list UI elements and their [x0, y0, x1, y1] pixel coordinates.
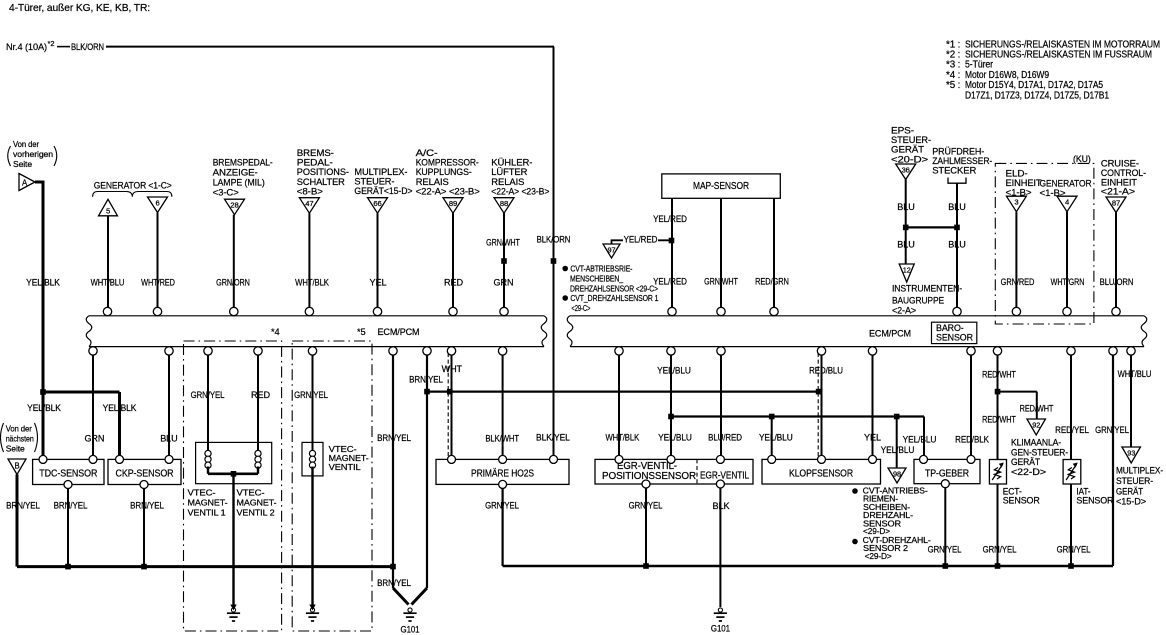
svg-text:YEL/BLU: YEL/BLU [658, 433, 692, 443]
svg-text:RED: RED [444, 278, 463, 288]
svg-text:GRN/YEL: GRN/YEL [485, 501, 519, 511]
svg-text:TDC-SENSOR: TDC-SENSOR [39, 468, 97, 479]
svg-text:Seite: Seite [6, 444, 25, 454]
svg-text:<29-D>: <29-D> [865, 552, 892, 561]
svg-text:GRN: GRN [494, 278, 514, 288]
svg-text:WHT/BLU: WHT/BLU [1118, 369, 1152, 379]
svg-text:ECM/PCM: ECM/PCM [378, 326, 420, 337]
svg-text:GRN/YEL: GRN/YEL [983, 545, 1017, 555]
svg-text:GENERATOR <1-C>: GENERATOR <1-C> [94, 181, 172, 192]
svg-text:VENTIL 1: VENTIL 1 [188, 508, 226, 518]
svg-text:<29-C>: <29-C> [571, 304, 590, 313]
svg-text:WHT/BLU: WHT/BLU [91, 278, 125, 288]
svg-text:B: B [14, 462, 19, 471]
svg-text:RED/WHT: RED/WHT [1020, 404, 1054, 414]
svg-text:G101: G101 [401, 624, 420, 634]
svg-text:GERÄT: GERÄT [1116, 486, 1144, 496]
svg-text:SICHERUNGS-/RELAISKASTEN IM FU: SICHERUNGS-/RELAISKASTEN IM FUSSRAUM [965, 50, 1152, 61]
svg-text:BRN/YEL: BRN/YEL [377, 433, 411, 443]
svg-text:D17Z1, D17Z3, D17Z4, D17Z5, D1: D17Z1, D17Z3, D17Z4, D17Z5, D17B1 [965, 90, 1109, 101]
svg-text:28: 28 [230, 201, 238, 210]
svg-text:CVT-ABTRIEBSRIE-: CVT-ABTRIEBSRIE- [570, 265, 632, 274]
svg-text:BLK/ORN: BLK/ORN [71, 42, 104, 52]
svg-text:<3-C>: <3-C> [213, 188, 240, 199]
svg-text:BLK: BLK [713, 501, 730, 511]
svg-text:SENSOR: SENSOR [1003, 495, 1040, 505]
svg-text:VTEC-: VTEC- [188, 488, 216, 498]
svg-text:RED/GRN: RED/GRN [755, 277, 789, 287]
svg-text:BRN/YEL: BRN/YEL [409, 375, 443, 385]
svg-text:Von der: Von der [6, 424, 32, 434]
svg-text:GRN/YEL: GRN/YEL [191, 390, 225, 400]
svg-text:<29-D>: <29-D> [863, 527, 890, 536]
svg-text:BLU: BLU [160, 434, 177, 444]
svg-text:MAGNET-: MAGNET- [188, 498, 228, 508]
svg-text:YEL/BLK: YEL/BLK [26, 278, 60, 288]
svg-text:WHT/GRN: WHT/GRN [1051, 277, 1085, 287]
svg-text:88: 88 [500, 199, 508, 208]
svg-text:<21-A>: <21-A> [1101, 187, 1136, 198]
svg-text:YEL/BLU: YEL/BLU [881, 445, 915, 455]
svg-text:BLU/ORN: BLU/ORN [1100, 277, 1134, 287]
svg-text:BAUGRUPPE: BAUGRUPPE [892, 295, 944, 305]
svg-text:*5 :: *5 : [946, 80, 960, 91]
svg-text:TP-GEBER: TP-GEBER [925, 468, 969, 479]
svg-text:BRN/YEL: BRN/YEL [377, 578, 411, 588]
svg-text:EGR-VENTIL: EGR-VENTIL [700, 471, 749, 482]
svg-text:SENSOR: SENSOR [936, 333, 973, 343]
svg-text:YEL: YEL [864, 433, 881, 443]
svg-text:MAGNET-: MAGNET- [237, 498, 277, 508]
svg-text:GRN/YEL: GRN/YEL [629, 501, 663, 511]
svg-text:G101: G101 [711, 624, 730, 634]
svg-text:66: 66 [373, 199, 381, 208]
svg-text:<22-A> <23-B>: <22-A> <23-B> [491, 186, 549, 197]
svg-text:BLU: BLU [897, 202, 914, 212]
svg-text:KLIMAANLA-: KLIMAANLA- [1011, 438, 1061, 448]
svg-text:YEL/RED: YEL/RED [653, 277, 687, 287]
svg-text:98: 98 [893, 469, 901, 478]
svg-text:GRN/ORN: GRN/ORN [216, 278, 250, 288]
svg-text:YEL/BLU: YEL/BLU [903, 435, 937, 445]
svg-text:BLK/ORN: BLK/ORN [537, 235, 571, 245]
svg-text:STECKER: STECKER [932, 166, 976, 177]
svg-text:RED/YEL: RED/YEL [1055, 425, 1089, 435]
svg-text:BLU: BLU [948, 240, 965, 250]
svg-text:GEN-STEUER-: GEN-STEUER- [1011, 447, 1068, 457]
svg-text:GRN/RED: GRN/RED [1001, 277, 1035, 287]
svg-text:WHT: WHT [442, 364, 463, 374]
svg-text:KLOPFSENSOR: KLOPFSENSOR [789, 468, 853, 479]
svg-text:GRN/WHT: GRN/WHT [704, 277, 738, 287]
svg-text:YEL/BLK: YEL/BLK [103, 403, 137, 413]
svg-text:<8-B>: <8-B> [297, 186, 324, 197]
svg-text:SENSOR: SENSOR [1076, 495, 1113, 505]
svg-text:RED/BLK: RED/BLK [955, 435, 989, 445]
svg-text:STEUER-: STEUER- [1116, 476, 1153, 486]
svg-text:*4: *4 [271, 327, 280, 337]
svg-text:vorherigen: vorherigen [13, 149, 53, 159]
svg-text:YEL: YEL [370, 278, 387, 288]
svg-text:GRN/WHT: GRN/WHT [486, 238, 520, 248]
svg-text:CVT_DREHZAHLSENSOR 1: CVT_DREHZAHLSENSOR 1 [570, 294, 658, 303]
svg-text:<2-A>: <2-A> [892, 306, 916, 316]
svg-text:<22-D>: <22-D> [1011, 467, 1046, 477]
svg-text:<22-A> <23-B>: <22-A> <23-B> [416, 186, 481, 197]
svg-text:MENSCHEIBEN_: MENSCHEIBEN_ [570, 275, 623, 284]
svg-text:MULTIPLEX-: MULTIPLEX- [1116, 466, 1163, 476]
svg-text:BRN/YEL: BRN/YEL [54, 501, 88, 511]
svg-text:(KU): (KU) [1073, 154, 1091, 164]
svg-text:Nr.4 (10A): Nr.4 (10A) [6, 42, 47, 52]
svg-text:Seite: Seite [13, 159, 32, 169]
svg-text:BLU/RED: BLU/RED [708, 433, 742, 443]
svg-text:97: 97 [608, 245, 616, 254]
svg-text:Von der: Von der [13, 139, 39, 149]
svg-text:YEL/BLU: YEL/BLU [759, 433, 793, 443]
svg-text:VENTIL: VENTIL [329, 462, 361, 472]
svg-text:*5: *5 [357, 327, 366, 337]
svg-text:87: 87 [1112, 198, 1120, 207]
svg-text:3: 3 [1014, 198, 1018, 207]
svg-text:YEL/RED: YEL/RED [653, 214, 687, 224]
svg-text:GRN/YEL: GRN/YEL [1095, 425, 1129, 435]
svg-text:4-Türer, außer KG, KE, KB, TR:: 4-Türer, außer KG, KE, KB, TR: [9, 2, 150, 14]
svg-text:47: 47 [305, 199, 313, 208]
svg-text:VTEC-: VTEC- [237, 488, 265, 498]
svg-text:RED/BLU: RED/BLU [809, 365, 843, 375]
svg-text:BLK/YEL: BLK/YEL [536, 432, 570, 442]
svg-text:BRN/YEL: BRN/YEL [6, 501, 40, 511]
svg-text:BLK/WHT: BLK/WHT [485, 433, 519, 443]
svg-text:GERÄT<15-D>: GERÄT<15-D> [354, 186, 412, 197]
svg-text:BLU: BLU [897, 240, 914, 250]
svg-text:WHT/RED: WHT/RED [141, 278, 175, 288]
svg-text:WHT/BLK: WHT/BLK [295, 278, 329, 288]
svg-text:A: A [22, 178, 28, 187]
svg-text:<15-D>: <15-D> [1116, 497, 1146, 507]
svg-text:nächsten: nächsten [6, 434, 34, 444]
svg-text:POSITIONSSENSOR: POSITIONSSENSOR [602, 471, 696, 482]
svg-text:BLU: BLU [948, 202, 965, 212]
svg-text:DREHZAHLSENSOR <29-C>: DREHZAHLSENSOR <29-C> [570, 285, 658, 294]
svg-text:GRN: GRN [84, 434, 104, 444]
svg-text:RED/WHT: RED/WHT [982, 370, 1016, 380]
svg-text:92: 92 [1032, 420, 1040, 429]
svg-text:YEL/BLK: YEL/BLK [27, 403, 61, 413]
svg-text:VENTIL 2: VENTIL 2 [237, 508, 275, 518]
svg-text:CKP-SENSOR: CKP-SENSOR [116, 468, 174, 479]
svg-text:5: 5 [106, 206, 110, 215]
svg-text:89: 89 [449, 199, 457, 208]
svg-text:BARO-: BARO- [936, 323, 964, 333]
svg-text:4: 4 [1065, 198, 1069, 207]
svg-text:INSTRUMENTEN-: INSTRUMENTEN- [892, 284, 962, 294]
svg-text:GRN/YEL: GRN/YEL [1057, 545, 1091, 555]
svg-text:YEL/RED: YEL/RED [624, 235, 658, 245]
svg-text:BRN/YEL: BRN/YEL [130, 501, 164, 511]
svg-text:6: 6 [155, 198, 159, 207]
svg-text:RED/WHT: RED/WHT [982, 415, 1016, 425]
svg-text:WHT/BLK: WHT/BLK [605, 433, 639, 443]
svg-text:YEL/BLU: YEL/BLU [657, 365, 691, 375]
svg-text:93: 93 [1127, 448, 1135, 457]
svg-text:*2: *2 [48, 39, 55, 48]
svg-text:ECM/PCM: ECM/PCM [869, 328, 911, 339]
svg-text:36: 36 [902, 165, 910, 174]
svg-text:GRN/YEL: GRN/YEL [294, 390, 328, 400]
svg-text:RED: RED [251, 390, 270, 400]
svg-text:MAP-SENSOR: MAP-SENSOR [693, 181, 749, 192]
svg-text:PRIMÄRE HO2S: PRIMÄRE HO2S [471, 467, 534, 479]
svg-text:12: 12 [903, 265, 911, 274]
svg-text:GRN/YEL: GRN/YEL [928, 545, 962, 555]
svg-text:GERÄT: GERÄT [1011, 457, 1041, 467]
